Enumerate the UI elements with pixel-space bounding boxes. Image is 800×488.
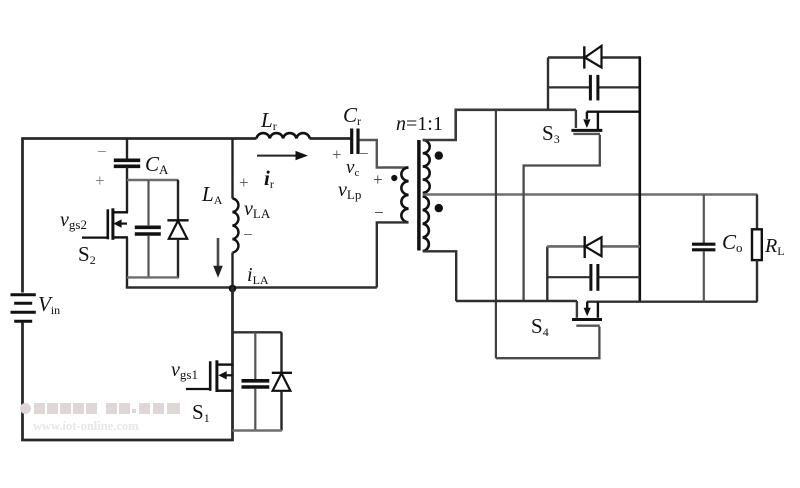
svg-text:Vin: Vin <box>38 292 60 317</box>
transistor Q S2 mosfet <box>82 208 128 240</box>
svg-text:Lr: Lr <box>260 108 277 133</box>
wire secondary top to S3 <box>423 110 576 140</box>
arrow ir <box>257 155 297 157</box>
svg-text:vgs1: vgs1 <box>171 359 198 382</box>
wire left rail lower <box>21 323 24 442</box>
node secondary bottom dot <box>435 204 443 212</box>
wire bottom rail <box>21 439 233 442</box>
svg-text:−: − <box>97 142 107 161</box>
svg-text:−: − <box>359 144 369 163</box>
wire CA to S2 drain <box>126 167 128 213</box>
svg-text:S3: S3 <box>542 121 560 146</box>
svg-text:+: + <box>239 173 249 192</box>
svg-text:ir: ir <box>264 166 274 191</box>
node secondary top dot <box>435 151 443 159</box>
watermark line 1 <box>20 403 180 414</box>
wire center tap output <box>423 193 758 196</box>
diode S2 body <box>177 180 179 220</box>
wire primary bottom <box>377 222 409 287</box>
capacitor CA <box>126 138 128 161</box>
wire secondary bottom <box>423 251 457 301</box>
transistor Q S3 mosfet <box>571 110 640 134</box>
battery Vin <box>11 295 36 322</box>
diode S3 body <box>547 58 549 111</box>
svg-text:+: + <box>95 171 105 190</box>
diode S4 body <box>546 246 548 301</box>
svg-text:CA: CA <box>145 152 169 177</box>
svg-text:+: + <box>332 145 342 164</box>
transformer secondary bottom winding <box>423 196 429 251</box>
svg-text:n=1:1: n=1:1 <box>396 113 443 135</box>
svg-text:S2: S2 <box>78 242 96 267</box>
svg-text:RL: RL <box>764 235 785 258</box>
svg-text:+: + <box>373 170 383 189</box>
svg-text:S4: S4 <box>531 314 549 339</box>
capacitor S3 snubber <box>548 86 640 88</box>
inductor LA <box>231 138 233 199</box>
node junction dot <box>229 285 237 293</box>
wire Cr to primary top <box>360 140 409 168</box>
svg-text:www.iot-online.com: www.iot-online.com <box>33 419 139 433</box>
capacitor Co <box>703 195 705 244</box>
svg-text:vc: vc <box>346 157 359 179</box>
transformer core <box>417 140 421 251</box>
wire S1 main vertical <box>231 287 234 441</box>
wire S4 gate line <box>495 110 497 358</box>
wire S1 box top <box>233 331 282 333</box>
wire S4 gate loop <box>496 327 600 359</box>
svg-text:Cr: Cr <box>343 103 361 128</box>
wire S2 box bottom <box>127 276 179 278</box>
wire S2 box top <box>127 179 179 181</box>
svg-text:vgs2: vgs2 <box>60 209 87 232</box>
svg-text:vLA: vLA <box>244 198 271 221</box>
wire right rail <box>638 56 641 301</box>
transistor Q S1 mosfet <box>186 360 233 392</box>
transformer secondary top winding <box>423 140 430 193</box>
wire left rail (input) <box>21 137 24 292</box>
wire top rail <box>23 137 352 140</box>
wire mid rail <box>126 286 377 288</box>
svg-text:iLA: iLA <box>247 264 269 287</box>
capacitor S1 snubber <box>254 332 256 379</box>
wire S1 box bottom <box>233 429 282 431</box>
resistor RL <box>756 195 758 230</box>
capacitor S2 snubber <box>147 180 149 225</box>
capacitor Cr <box>352 129 358 155</box>
wire output bottom left <box>456 300 577 302</box>
svg-text:S1: S1 <box>192 400 210 425</box>
wire S2 source down <box>126 238 128 289</box>
arrow iLA <box>217 238 220 269</box>
transformer primary winding <box>401 167 408 222</box>
svg-text:−: − <box>243 225 253 244</box>
node primary dot <box>391 175 397 181</box>
svg-text:vLp: vLp <box>338 179 361 202</box>
svg-text:LA: LA <box>201 182 223 207</box>
wire S3 gate loop <box>524 135 600 301</box>
diode S1 body <box>280 332 282 372</box>
svg-text:Co: Co <box>722 230 743 255</box>
inductor Lr <box>257 133 310 138</box>
capacitor S4 snubber <box>547 276 640 278</box>
transistor Q S4 mosfet <box>572 301 757 326</box>
svg-text:−: − <box>374 203 384 222</box>
